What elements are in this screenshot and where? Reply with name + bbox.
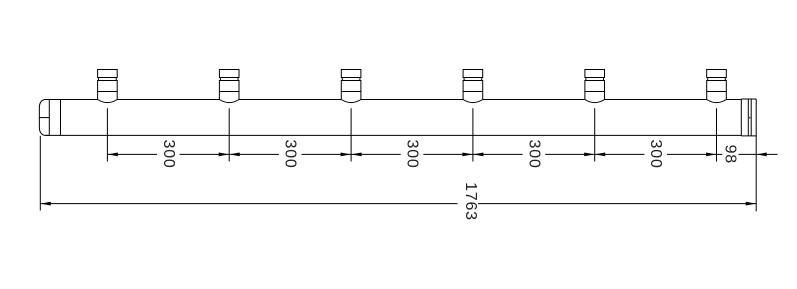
- nozzle N1 body: [98, 81, 118, 92]
- svg-text:98: 98: [721, 145, 738, 164]
- dome tangent line: [48, 100, 50, 136]
- nozzle N4 cap: [463, 70, 483, 78]
- extension lines from nozzle centers: [107, 108, 716, 161]
- nozzle N5 body: [585, 81, 605, 92]
- svg-text:300: 300: [282, 140, 299, 169]
- nozzle N3 base sides: [341, 92, 361, 100]
- nozzle N1 cap: [98, 70, 118, 78]
- dimension line row 2 (1763 overall): [40, 203, 756, 205]
- dim1 arrow at last nozzle line: [706, 153, 717, 157]
- dim1 arrow at first extension line: [107, 153, 118, 157]
- nozzle N2 saddle arc: [219, 100, 239, 103]
- svg-text:1763: 1763: [462, 182, 479, 221]
- dome mid line: [39, 117, 49, 119]
- coupler groove line 1: [747, 99, 749, 136]
- dimension line row 1 (300 chain + 98): [107, 153, 777, 155]
- nozzle N2 body: [219, 81, 239, 92]
- svg-text:300: 300: [647, 140, 664, 169]
- nozzle N2 collar band: [220, 78, 238, 81]
- dim2 left arrow: [40, 202, 51, 206]
- nozzle N4 body: [463, 81, 483, 92]
- left dome end cap: [39, 100, 49, 136]
- svg-text:300: 300: [404, 140, 421, 169]
- extension line left end: [39, 136, 41, 211]
- coupler right edge + extension line: [755, 99, 757, 211]
- svg-text:300: 300: [525, 140, 542, 169]
- svg-text:300: 300: [160, 140, 177, 169]
- nozzle N5 cap: [585, 70, 605, 78]
- nozzle N6 saddle arc: [707, 100, 727, 103]
- nozzle N1 base sides: [98, 92, 118, 100]
- dim1 double dart at x=351.1: [341, 153, 352, 157]
- coupler groove tick: [749, 117, 751, 119]
- dim1 double dart at x=594.7: [584, 153, 595, 157]
- pipe body top line: [48, 99, 741, 101]
- dim1 double dart at x=472.9: [462, 153, 473, 157]
- nozzle N6 body: [707, 81, 727, 92]
- nozzle N1 collar band: [99, 78, 117, 81]
- nozzle N3 cap: [341, 70, 361, 78]
- right coupler outline: [741, 99, 756, 136]
- nozzle N3 saddle arc: [341, 100, 361, 103]
- nozzle N5 collar band: [586, 78, 604, 81]
- nozzle N1 saddle arc: [98, 100, 118, 103]
- pipe body bottom line: [46, 134, 742, 136]
- nozzle N2 base sides: [219, 92, 239, 100]
- nozzle N2 cap: [219, 70, 239, 78]
- nozzle N5 base sides: [585, 92, 605, 100]
- dim1 double dart at x=229.2: [219, 153, 230, 157]
- nozzle N6 base sides: [707, 92, 727, 100]
- nozzle N4 saddle arc: [463, 100, 483, 103]
- dim2 right arrow: [746, 202, 757, 206]
- nozzle N3 body: [341, 81, 361, 92]
- nozzle N6 cap: [707, 70, 727, 78]
- nozzle N3 collar band: [342, 78, 360, 81]
- nozzle N4 base sides: [463, 92, 483, 100]
- weld seam line left: [60, 100, 62, 136]
- nozzle N6 collar band: [708, 78, 726, 81]
- dim1 arrow at right end (98, outside): [756, 153, 767, 157]
- nozzle N5 saddle arc: [585, 100, 605, 103]
- coupler groove line 2: [750, 99, 752, 136]
- nozzle N4 collar band: [464, 78, 482, 81]
